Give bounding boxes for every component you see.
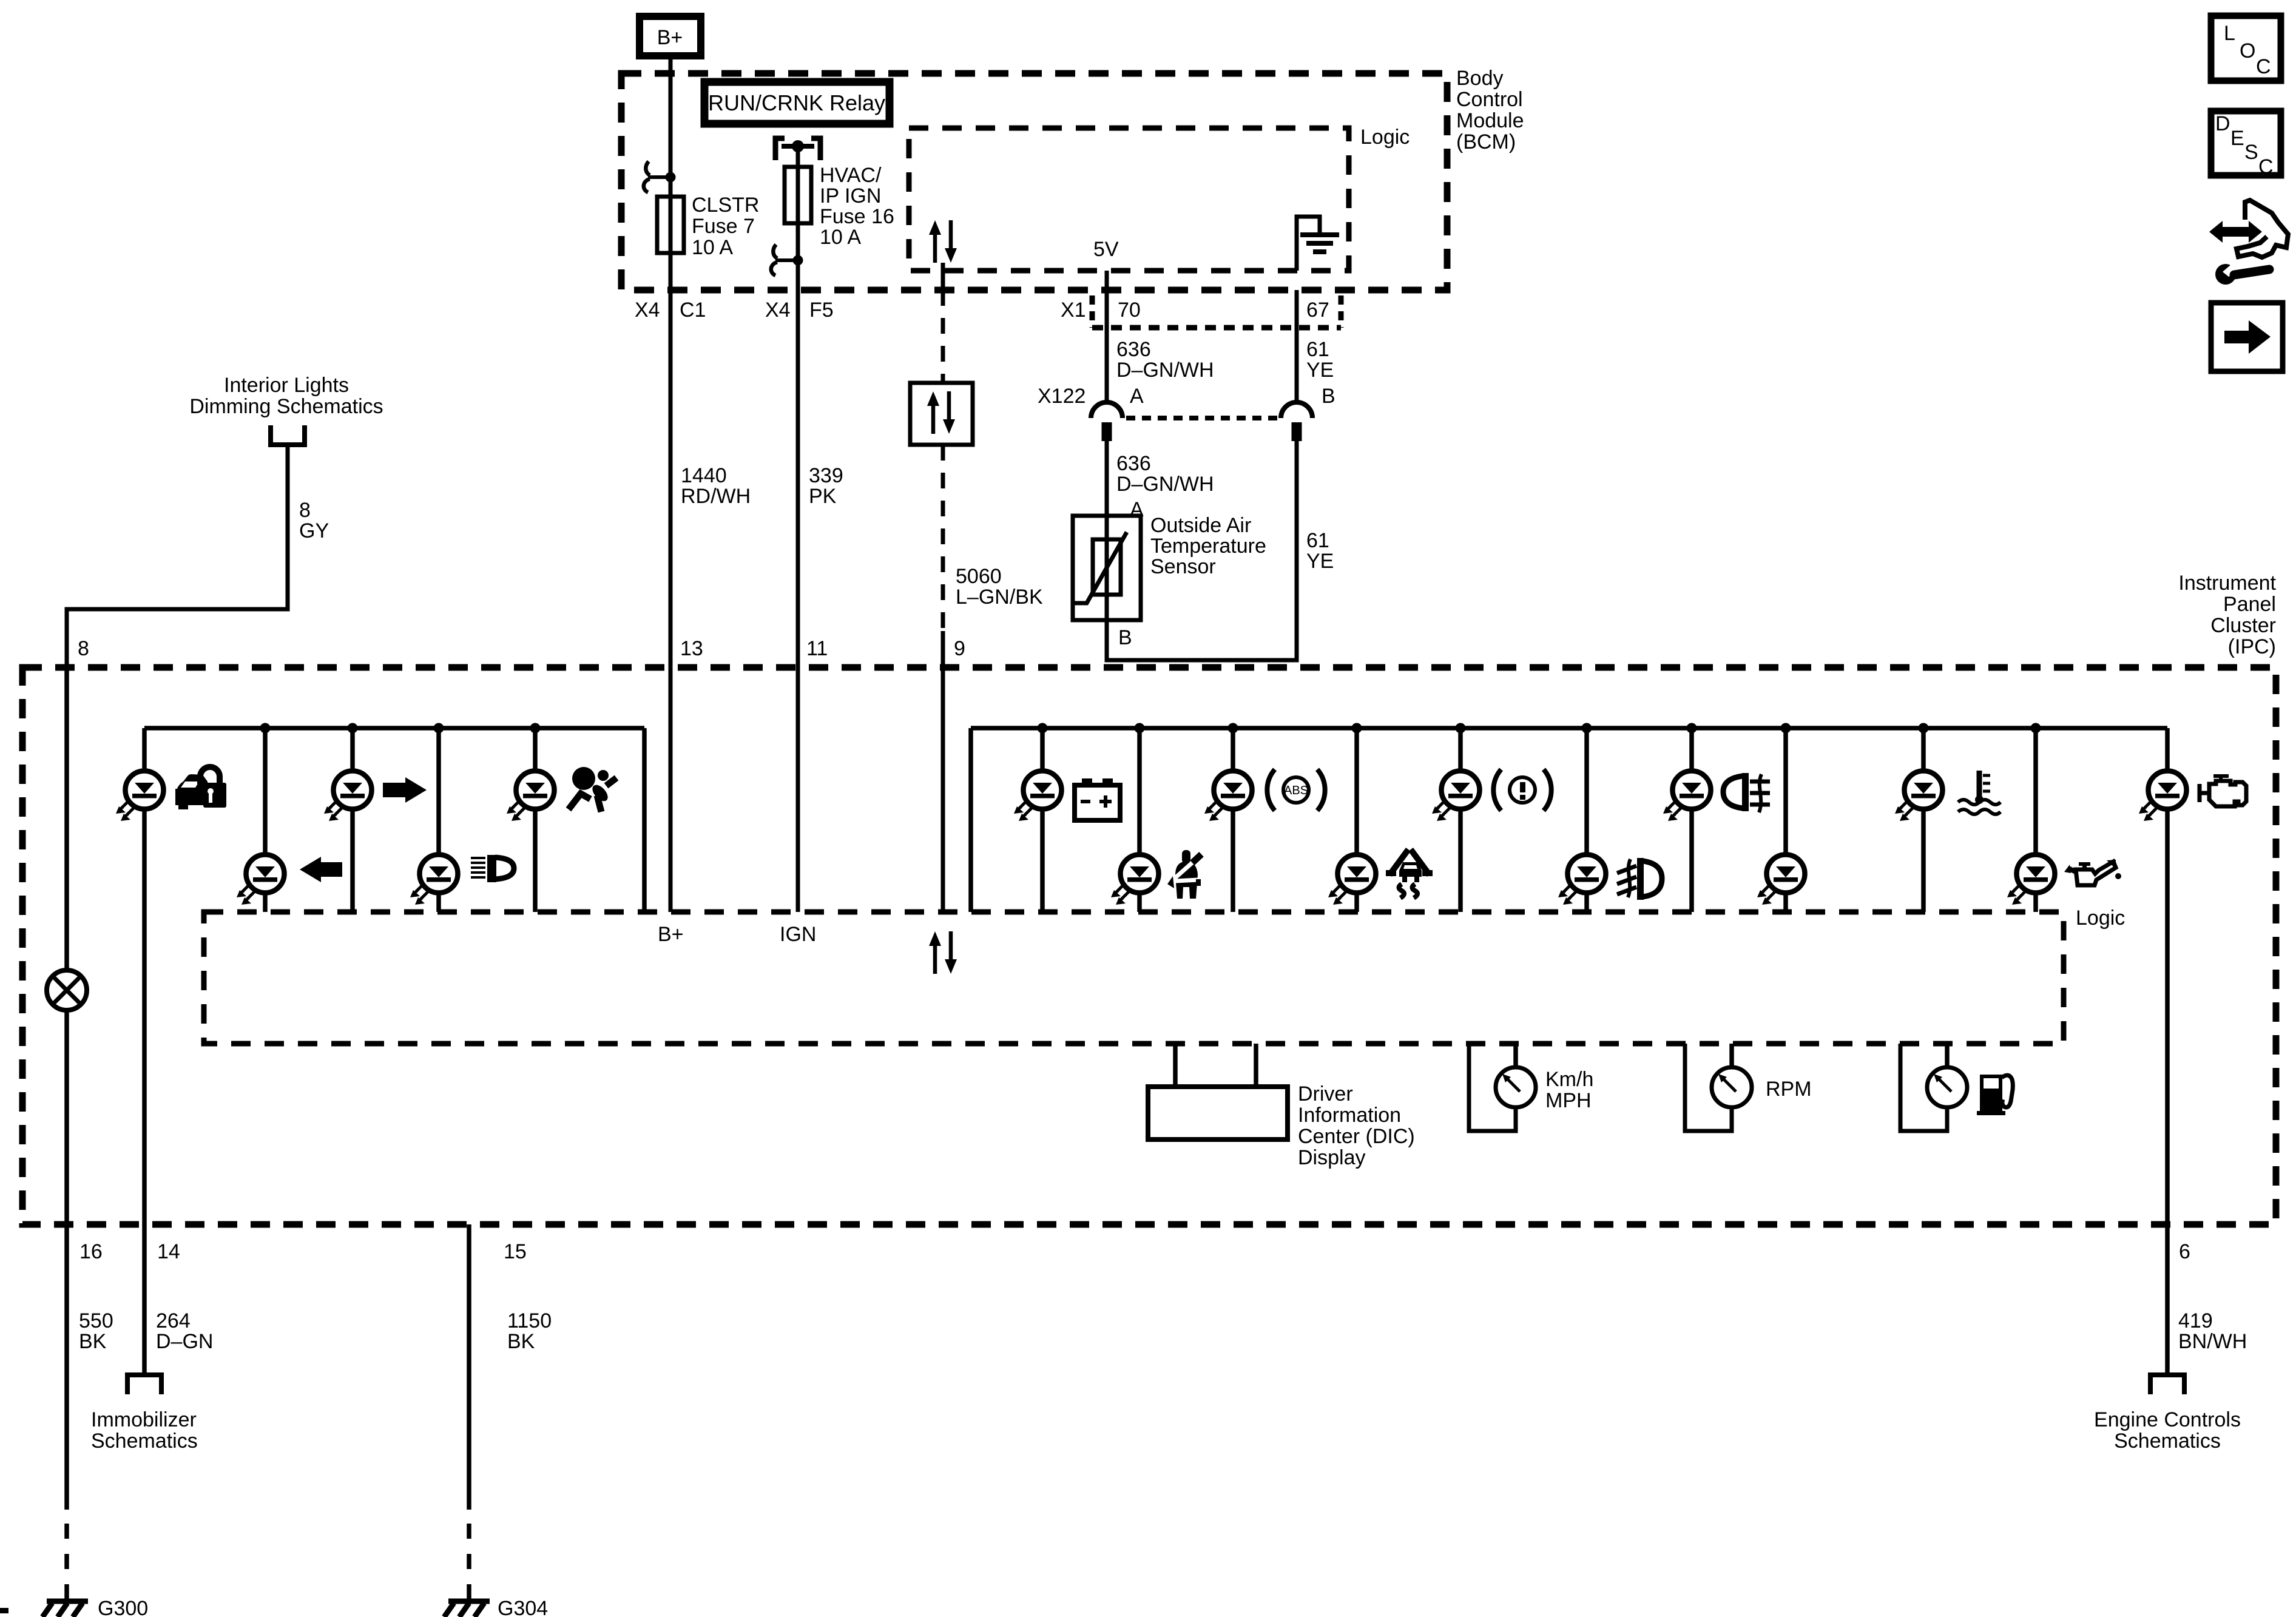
svg-text:L: L xyxy=(2224,22,2235,45)
label B at sensor xyxy=(1118,626,1132,649)
svg-text:8: 8 xyxy=(78,637,89,660)
svg-text:E: E xyxy=(2230,127,2244,150)
label 1150 BK xyxy=(507,1309,552,1353)
svg-text:D–GN/WH: D–GN/WH xyxy=(1116,359,1214,382)
svg-text:GY: GY xyxy=(299,519,329,542)
svg-text:B+: B+ xyxy=(658,923,684,946)
svg-text:15: 15 xyxy=(504,1240,527,1263)
high beam icon xyxy=(471,855,514,882)
connector repair tool icon xyxy=(2209,200,2288,285)
ABS LED wire xyxy=(1231,728,1235,912)
traction control icon xyxy=(1386,849,1433,898)
svg-text:Display: Display xyxy=(1298,1146,1365,1169)
brake warning icon xyxy=(1493,769,1551,811)
battery LED wire xyxy=(1040,728,1045,912)
sensor return loop wire xyxy=(1107,441,1297,660)
right-turn LED wire xyxy=(350,728,355,912)
Immobilizer Schematics label xyxy=(91,1408,198,1453)
immobilizer wire 264 D-GN (pin 14) xyxy=(142,1224,147,1375)
label A at sensor xyxy=(1130,498,1144,521)
svg-text:61: 61 xyxy=(1306,338,1329,361)
right indicator bus xyxy=(971,726,2167,731)
forward arrow box xyxy=(2211,303,2283,371)
right bus junction dots xyxy=(1038,723,2041,734)
label 8 GY xyxy=(299,499,329,542)
svg-text:8: 8 xyxy=(299,499,311,522)
label 61 YE lower xyxy=(1306,529,1334,573)
airbag icon xyxy=(569,767,616,812)
page edge mark xyxy=(0,1608,8,1613)
svg-text:D–GN: D–GN xyxy=(156,1330,213,1353)
battery indicator LED xyxy=(1014,771,1062,822)
svg-text:F5: F5 xyxy=(809,299,834,322)
IPC serial data arrows xyxy=(929,931,957,974)
ground wire 550 BK (pin 16) xyxy=(64,1224,69,1602)
svg-text:Schematics: Schematics xyxy=(91,1430,198,1453)
wire B+ to fuse 7 xyxy=(669,56,673,199)
IPC bottom pin labels 16 14 15 6 xyxy=(79,1240,2190,1263)
label 61 YE upper xyxy=(1306,338,1334,382)
svg-text:70: 70 xyxy=(1118,299,1141,322)
connector X122 pin B xyxy=(1281,402,1312,441)
svg-text:Outside Air: Outside Air xyxy=(1150,514,1251,537)
dimming wire with bulb to pin 16 xyxy=(64,667,69,1224)
svg-text:Body: Body xyxy=(1456,67,1504,90)
svg-text:YE: YE xyxy=(1306,359,1334,382)
BCM internal ground xyxy=(1297,217,1339,271)
security LED wire (pin 14) xyxy=(142,728,147,1224)
svg-text:6: 6 xyxy=(2179,1240,2190,1263)
svg-text:HVAC/: HVAC/ xyxy=(820,164,882,187)
svg-text:(BCM): (BCM) xyxy=(1456,130,1516,154)
RUN/CRNK Relay box xyxy=(704,82,890,124)
brake warning LED wire xyxy=(1458,728,1463,912)
svg-text:YE: YE xyxy=(1306,550,1334,573)
power feed B+ box xyxy=(640,16,701,56)
security indicator LED xyxy=(116,771,164,822)
bulb (illumination lamp) xyxy=(47,970,87,1010)
svg-text:G300: G300 xyxy=(98,1597,148,1617)
svg-text:C: C xyxy=(2256,55,2271,78)
seatbelt indicator LED xyxy=(1111,855,1159,905)
svg-text:B: B xyxy=(1118,626,1132,649)
ground G300 xyxy=(42,1601,88,1617)
battery icon xyxy=(1075,778,1120,820)
svg-text:1150: 1150 xyxy=(507,1309,552,1332)
seatbelt LED wire xyxy=(1137,728,1142,912)
svg-text:Control: Control xyxy=(1456,88,1523,111)
tachometer xyxy=(1712,1067,1752,1107)
high-beam LED wire xyxy=(436,728,441,912)
svg-text:Temperature: Temperature xyxy=(1150,535,1266,558)
svg-text:CLSTR: CLSTR xyxy=(692,194,759,217)
svg-text:(IPC): (IPC) xyxy=(2228,635,2276,658)
svg-text:5060: 5060 xyxy=(956,565,1002,588)
X122 dashed connector line xyxy=(1126,416,1277,420)
pin labels X4 C1 X4 F5 xyxy=(635,299,834,322)
IPC pin labels 13 11 9 xyxy=(680,637,965,660)
svg-text:Sensor: Sensor xyxy=(1150,555,1216,578)
svg-text:61: 61 xyxy=(1306,529,1329,552)
BCM Logic label xyxy=(1360,126,1410,149)
svg-text:16: 16 xyxy=(79,1240,103,1263)
fuse 16 label xyxy=(820,164,894,249)
svg-text:Module: Module xyxy=(1456,109,1524,132)
svg-text:S: S xyxy=(2244,141,2258,164)
label 5060 L-GN/BK xyxy=(956,565,1043,609)
svg-text:Logic: Logic xyxy=(1360,126,1410,149)
X1 pin labels xyxy=(1061,299,1329,322)
svg-text:IP IGN: IP IGN xyxy=(820,184,881,208)
svg-text:B+: B+ xyxy=(657,26,683,49)
left-turn indicator LED xyxy=(237,855,285,905)
Instrument Panel Cluster (IPC) dashed box xyxy=(22,667,2276,1224)
label 419 BN/WH xyxy=(2178,1309,2247,1353)
Driver Information Center (DIC) Display box xyxy=(1148,1087,1288,1139)
svg-text:Logic: Logic xyxy=(2076,906,2125,930)
engine MIL indicator LED xyxy=(2139,771,2187,822)
svg-text:PK: PK xyxy=(809,485,837,508)
svg-text:B: B xyxy=(1322,385,1335,408)
oil pressure icon xyxy=(2064,860,2121,885)
svg-text:10 A: 10 A xyxy=(692,236,733,259)
left arrow icon xyxy=(300,857,342,882)
svg-text:O: O xyxy=(2240,39,2255,62)
fuel pump icon xyxy=(1977,1075,2013,1115)
right arrow icon xyxy=(383,777,427,803)
svg-text:D: D xyxy=(2215,112,2230,135)
spare indicator LED xyxy=(1757,855,1805,905)
speedometer wiring loop xyxy=(1469,1044,1516,1131)
wire 1440 RD/WH (pin C1 to IPC pin 13) xyxy=(669,290,673,912)
left indicator bus xyxy=(144,726,644,731)
wire 8 GY xyxy=(67,445,288,667)
G300 label xyxy=(98,1597,148,1617)
Engine Controls Schematics label xyxy=(2094,1408,2241,1453)
svg-text:Engine Controls: Engine Controls xyxy=(2094,1408,2241,1431)
svg-text:5V: 5V xyxy=(1093,238,1119,261)
park lamp indicator LED xyxy=(1663,771,1711,822)
airbag LED wire xyxy=(533,728,538,912)
svg-text:X122: X122 xyxy=(1038,385,1086,408)
DIC display connection stubs xyxy=(1175,1044,1256,1087)
5V wire (pin 70) xyxy=(1105,271,1109,402)
svg-text:BK: BK xyxy=(79,1330,107,1353)
svg-text:14: 14 xyxy=(157,1240,180,1263)
high-beam indicator LED xyxy=(410,855,458,905)
fuse CLSTR Fuse 7 10A xyxy=(657,175,684,290)
label 636 D-GN/WH lower xyxy=(1116,452,1214,496)
brake warning indicator LED xyxy=(1432,771,1480,822)
wire X122-A to sensor xyxy=(1105,441,1109,516)
svg-text:RD/WH: RD/WH xyxy=(681,485,751,508)
fuse HVAC/IP IGN Fuse 16 10A xyxy=(785,167,811,223)
svg-text:Center (DIC): Center (DIC) xyxy=(1298,1125,1415,1148)
security icon (car with lock) xyxy=(175,767,226,809)
DESC reference box xyxy=(2211,111,2281,178)
connector X1 dashed box xyxy=(1092,295,1341,328)
fuel gauge wiring loop xyxy=(1900,1044,1947,1131)
speedometer xyxy=(1496,1067,1536,1107)
svg-text:550: 550 xyxy=(79,1309,113,1332)
left bus junction dots xyxy=(260,723,541,734)
svg-text:Dimming Schematics: Dimming Schematics xyxy=(189,395,383,418)
svg-text:X1: X1 xyxy=(1061,299,1086,322)
coolant temp indicator LED xyxy=(1895,771,1943,822)
left bus end wire xyxy=(642,728,647,912)
svg-text:Information: Information xyxy=(1298,1104,1401,1127)
two-way data arrow box xyxy=(910,383,973,445)
label 264 D-GN xyxy=(156,1309,213,1353)
svg-text:10 A: 10 A xyxy=(820,226,861,249)
fuel gauge xyxy=(1927,1067,1967,1107)
Interior Lights Dimming Schematics label xyxy=(189,374,383,418)
connector hook on fuse 16 wire xyxy=(771,245,803,275)
svg-text:13: 13 xyxy=(680,637,703,660)
left-turn LED wire xyxy=(263,728,268,912)
Body Control Module (BCM) dashed box xyxy=(621,73,1447,290)
svg-text:X4: X4 xyxy=(635,299,660,322)
Outside Air Temperature Sensor xyxy=(1073,516,1141,620)
off-page bracket to immobilizer xyxy=(125,1375,164,1394)
svg-text:1440: 1440 xyxy=(681,464,727,487)
svg-text:67: 67 xyxy=(1306,299,1329,322)
svg-text:IGN: IGN xyxy=(780,923,816,946)
svg-text:ABS: ABS xyxy=(1284,784,1308,797)
label 339 PK xyxy=(809,464,843,508)
X122 labels xyxy=(1038,385,1335,408)
off-page bracket from interior lights xyxy=(268,425,307,445)
svg-text:Schematics: Schematics xyxy=(2114,1430,2221,1453)
svg-text:G304: G304 xyxy=(498,1597,548,1617)
svg-text:MPH: MPH xyxy=(1545,1089,1592,1112)
BCM Logic dashed box xyxy=(909,128,1349,271)
label 1440 RD/WH xyxy=(681,464,751,508)
svg-text:RUN/CRNK Relay: RUN/CRNK Relay xyxy=(708,90,885,115)
tachometer wiring loop xyxy=(1685,1044,1732,1131)
label B+ internal xyxy=(658,923,684,946)
5V label xyxy=(1093,238,1119,261)
seatbelt icon xyxy=(1167,850,1201,899)
svg-text:11: 11 xyxy=(806,637,828,660)
svg-text:Fuse 16: Fuse 16 xyxy=(820,205,894,228)
svg-text:Km/h: Km/h xyxy=(1545,1068,1593,1091)
svg-text:419: 419 xyxy=(2178,1309,2213,1332)
serial data wire 5060 L-GN/BK xyxy=(941,263,945,912)
ground wire 1150 BK (pin 15) xyxy=(467,1224,471,1602)
svg-text:Fuse 7: Fuse 7 xyxy=(692,215,755,238)
label 550 BK xyxy=(79,1309,113,1353)
ground G304 xyxy=(444,1601,490,1617)
fuse 7 label xyxy=(692,194,759,259)
oil pressure LED wire xyxy=(2033,728,2038,912)
DIC label xyxy=(1298,1082,1415,1169)
svg-text:Immobilizer: Immobilizer xyxy=(91,1408,197,1431)
fog lamp indicator LED xyxy=(1558,855,1606,905)
label 636 D-GN/WH upper xyxy=(1116,338,1214,382)
svg-text:C1: C1 xyxy=(680,299,706,322)
svg-text:A: A xyxy=(1130,385,1144,408)
traction LED wire xyxy=(1354,728,1359,912)
svg-text:Interior Lights: Interior Lights xyxy=(224,374,349,397)
speedometer label xyxy=(1545,1068,1593,1112)
connector X122 pin A xyxy=(1091,402,1123,441)
right bus left end wire xyxy=(968,728,973,912)
ABS icon xyxy=(1267,769,1325,811)
wire 339 PK (pin F5 to IPC pin 11) xyxy=(796,290,800,912)
connector hook on fuse 7 wire xyxy=(644,161,676,192)
wire relay to fuse 16 xyxy=(796,146,800,290)
fog lamp icon xyxy=(1617,858,1662,900)
airbag indicator LED xyxy=(507,771,555,822)
pin 8 label xyxy=(78,637,89,660)
coolant temp LED wire xyxy=(1921,728,1926,912)
svg-text:Driver: Driver xyxy=(1298,1082,1353,1106)
oil pressure indicator LED xyxy=(2007,855,2055,905)
sensor label xyxy=(1150,514,1266,578)
relay contact xyxy=(775,138,820,160)
svg-text:BN/WH: BN/WH xyxy=(2178,1330,2247,1353)
svg-text:X4: X4 xyxy=(765,299,791,322)
BCM serial data arrows xyxy=(929,220,957,263)
svg-text:Cluster: Cluster xyxy=(2210,614,2276,637)
traction indicator LED xyxy=(1328,855,1376,905)
BCM label xyxy=(1456,67,1524,154)
IPC label xyxy=(2178,572,2276,658)
IPC Logic dashed box xyxy=(204,912,2064,1044)
fog lamp LED wire xyxy=(1584,728,1589,912)
svg-text:339: 339 xyxy=(809,464,843,487)
svg-text:Instrument: Instrument xyxy=(2178,572,2276,595)
coolant temperature icon xyxy=(1958,771,2001,814)
IPC Logic label xyxy=(2076,906,2125,930)
park lamp LED wire xyxy=(1689,728,1694,912)
engine MIL LED wire (pin 6) xyxy=(2165,728,2170,1224)
svg-text:636: 636 xyxy=(1116,338,1151,361)
ground return wire 61 YE (pin 67) xyxy=(1295,290,1299,402)
svg-text:D–GN/WH: D–GN/WH xyxy=(1116,473,1214,496)
svg-text:9: 9 xyxy=(954,637,965,660)
svg-text:L–GN/BK: L–GN/BK xyxy=(956,586,1043,609)
svg-text:636: 636 xyxy=(1116,452,1151,475)
park lamp icon xyxy=(1723,773,1770,812)
wire 419 BN/WH below IPC xyxy=(2165,1224,2170,1375)
svg-text:Panel: Panel xyxy=(2223,593,2276,616)
spare LED wire xyxy=(1783,728,1788,912)
svg-text:264: 264 xyxy=(156,1309,191,1332)
svg-text:RPM: RPM xyxy=(1766,1078,1812,1101)
label IGN internal xyxy=(780,923,816,946)
svg-text:BK: BK xyxy=(507,1330,535,1353)
engine MIL icon xyxy=(2200,774,2246,806)
tachometer label xyxy=(1766,1078,1812,1101)
LOC reference box xyxy=(2211,16,2281,81)
svg-text:C: C xyxy=(2258,155,2274,178)
G304 label xyxy=(498,1597,548,1617)
right-turn indicator LED xyxy=(324,771,372,822)
off-page bracket to engine controls xyxy=(2148,1375,2187,1394)
ABS indicator LED xyxy=(1204,771,1252,822)
